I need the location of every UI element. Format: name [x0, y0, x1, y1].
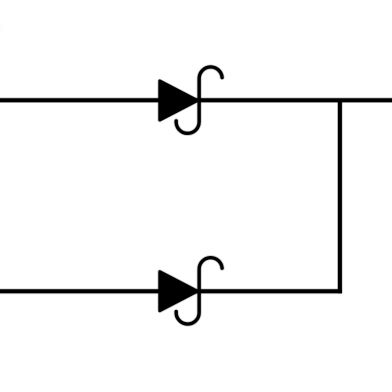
wire: top horizontal rail from left edge through D1 to right edge — [0, 97, 392, 103]
diode D2 (breakdown/TVS diode, S-curve cathode) on bottom rail — [160, 258, 222, 324]
wire: bottom horizontal rail from left edge through D2 to right branch — [0, 288, 342, 294]
wire: right vertical branch joining top rail (T junction) to bottom rail (corner) — [337, 100, 343, 293]
diode D1 (breakdown/TVS diode, S-curve cathode) on top rail — [160, 67, 222, 133]
